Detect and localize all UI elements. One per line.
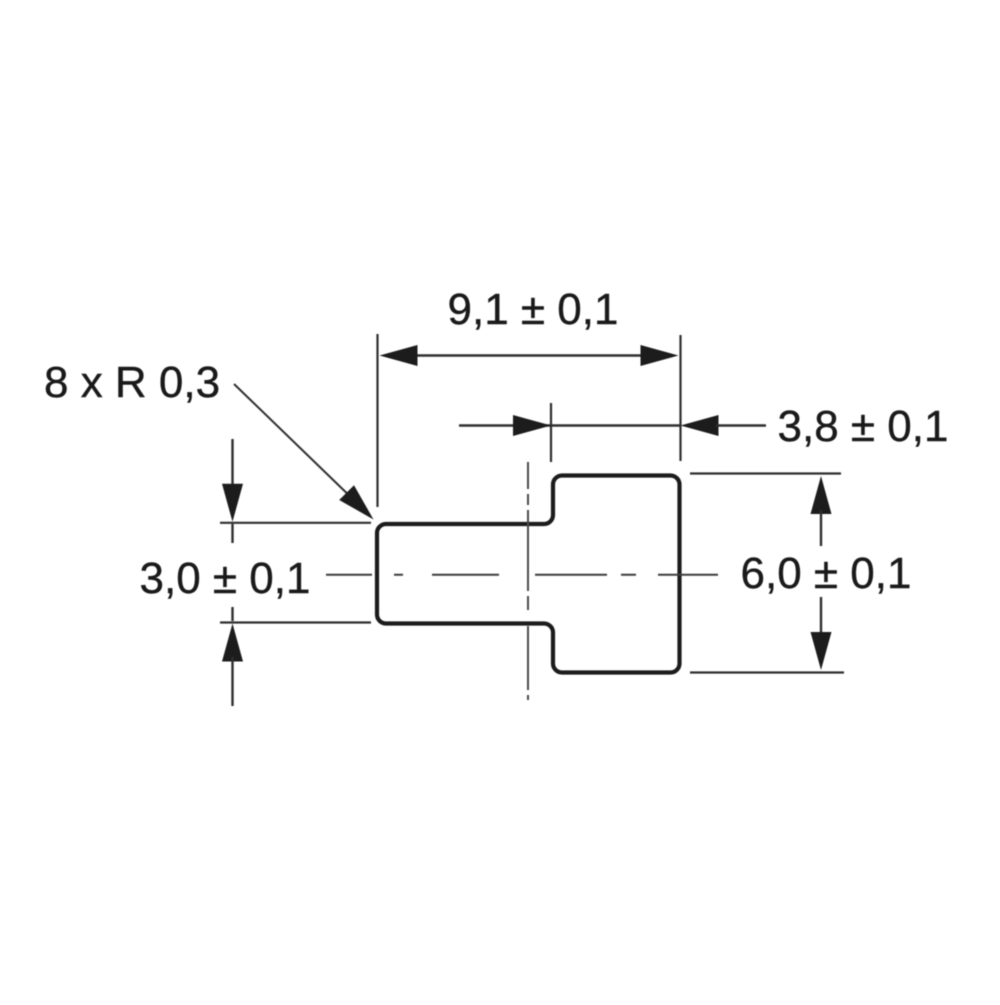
extension line top of 6,0 — [690, 472, 841, 474]
horizontal centerline — [326, 574, 718, 576]
leader line 8 x R 0,3 — [234, 384, 358, 504]
dimension line 9,1 — [413, 354, 644, 356]
arrow bottom 3,0 pointing up — [222, 624, 243, 662]
arrow right 3,8 pointing left — [681, 415, 719, 436]
svg-text:3,0 ± 0,1: 3,0 ± 0,1 — [140, 554, 311, 603]
dimension tail bottom 3,0 — [231, 657, 233, 706]
extension line top of 3,0 — [220, 522, 371, 524]
leader arrowhead — [339, 485, 373, 519]
arrow right 9,1 — [641, 345, 679, 366]
extension line left of 9,1 — [376, 334, 378, 507]
extension line bottom of 6,0 — [690, 671, 844, 673]
dimension tail top 3,0 — [231, 439, 233, 488]
extension line left of 3,8 — [550, 403, 552, 462]
svg-text:6,0 ± 0,1: 6,0 ± 0,1 — [741, 549, 912, 598]
arrow top 3,0 pointing down — [222, 484, 243, 522]
dimension stub lower inner 3,0 — [231, 607, 233, 621]
arrow left 9,1 — [380, 345, 418, 366]
part outline — [377, 476, 680, 673]
dimension tail right 3,8 — [716, 424, 766, 426]
dimension stub upper 6,0 — [820, 510, 822, 546]
dimension tail left 3,8 — [459, 424, 680, 426]
svg-text:9,1 ± 0,1: 9,1 ± 0,1 — [448, 285, 619, 334]
extension line right shared 9,1 / 3,8 — [679, 335, 681, 461]
dimension stub lower 6,0 — [820, 597, 822, 637]
dimension stub upper inner 3,0 — [231, 524, 233, 543]
svg-text:8 x R 0,3: 8 x R 0,3 — [44, 358, 220, 407]
arrow bottom 6,0 pointing down — [811, 632, 832, 670]
svg-text:3,8 ± 0,1: 3,8 ± 0,1 — [778, 402, 949, 451]
extension line bottom of 3,0 — [220, 621, 371, 623]
arrow top 6,0 pointing up — [811, 476, 832, 514]
vertical centerline — [527, 462, 529, 700]
arrow left 3,8 pointing right — [513, 415, 551, 436]
